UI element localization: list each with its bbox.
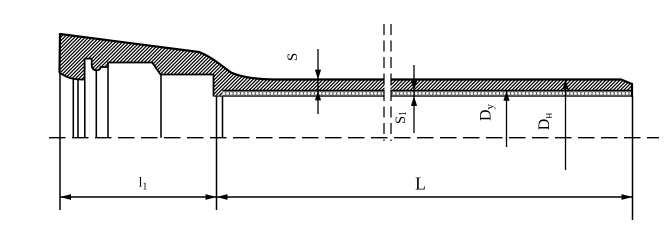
silhouette edge: bore ledge step [107, 68, 109, 138]
bottom dimension line [60, 196, 633, 198]
socket inner profile: groove, bead, bore steps, shoulder [85, 59, 214, 97]
l1 right arrow [206, 194, 217, 200]
dimension S: line [317, 49, 319, 114]
break gap (pipe interrupted) [385, 77, 391, 99]
outer profile outline [60, 34, 632, 84]
dimension S1: line [413, 65, 415, 133]
l1 left arrow [60, 194, 71, 200]
L left arrow [217, 194, 228, 200]
pipe body: socket + barrel hatched section [60, 34, 633, 96]
silhouette edge: socket shoulder / L extension line [216, 96, 218, 210]
bore line (inner surface) [214, 95, 633, 97]
silhouette edge: mouth outer / l1 extension line [59, 73, 61, 210]
silhouette edge: flare lip 1 [72, 78, 74, 138]
silhouette edge: bead bottom [95, 70, 97, 138]
dimension Dy: line [506, 91, 508, 147]
socket mouth face [58, 33, 61, 73]
silhouette edge: flare lip 2 [77, 79, 79, 137]
L right arrow [622, 194, 633, 200]
break line right [390, 24, 392, 141]
pipe end face [631, 83, 633, 97]
break line left [383, 24, 385, 141]
dimension Dn: arrow [562, 80, 568, 90]
dimension S: top arrow [315, 70, 321, 80]
dimension S1: bottom arrow [411, 96, 417, 106]
cement lining strip with circle texture [223, 91, 633, 96]
centerline [49, 137, 659, 139]
dimension Dy: arrow [503, 91, 509, 101]
dimension S1: top arrow [411, 81, 417, 91]
silhouette edge: socket back face [222, 96, 224, 138]
svg-text:S: S [285, 53, 301, 61]
silhouette edge: cone step [160, 75, 162, 138]
svg-text:L: L [415, 174, 426, 194]
socket mouth flare curve [60, 73, 85, 80]
dimension Dn: line [565, 80, 567, 171]
barrel wall bottom line [223, 90, 633, 92]
right extension line [632, 97, 634, 221]
silhouette edge: groove left [84, 80, 86, 138]
dimension S: bottom arrow [315, 91, 321, 101]
